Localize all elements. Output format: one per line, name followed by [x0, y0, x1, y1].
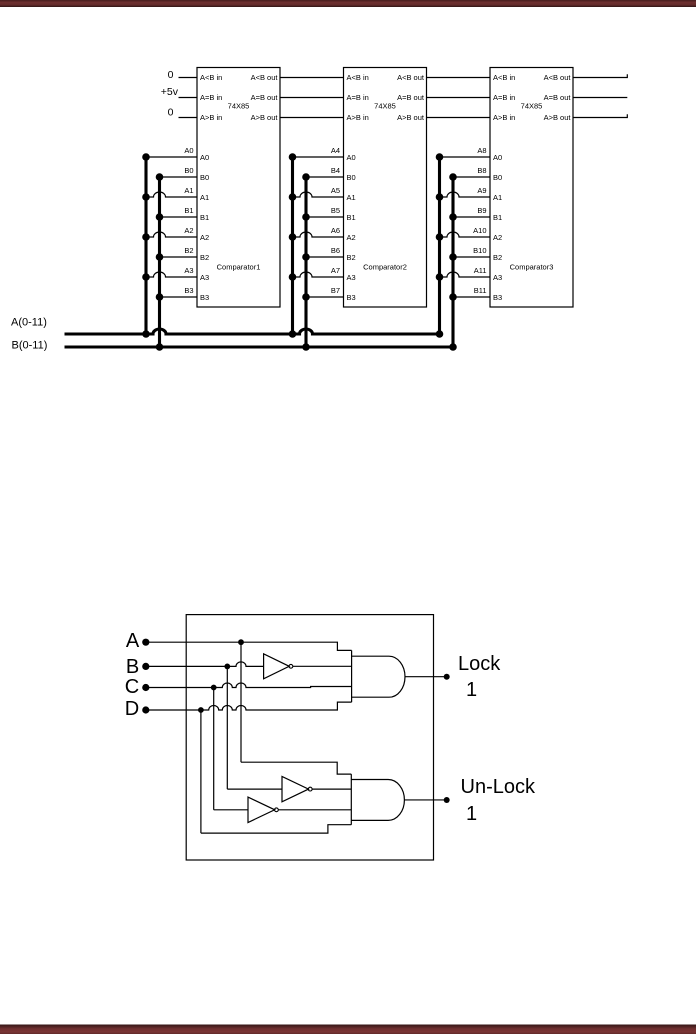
svg-text:B1: B1: [347, 213, 356, 222]
wire B to inverter N1: [146, 662, 264, 667]
wire C to AND1 input 3: [146, 683, 352, 687]
junction on A tap at A4: [289, 153, 297, 161]
wire net A4 to U2: [293, 156, 344, 158]
node D terminal: [142, 706, 149, 713]
svg-text:A3: A3: [184, 266, 193, 275]
svg-text:A=B in: A=B in: [200, 93, 222, 102]
wire net B5 to U2: [306, 216, 344, 218]
wire A=B out U3 to out: [573, 97, 627, 99]
wire A-bus vertical tap (chip 1): [144, 157, 147, 334]
svg-text:A8: A8: [477, 146, 486, 155]
wire 0 to U1 A>B in: [179, 117, 198, 119]
junction on B tap at B2: [156, 253, 164, 261]
bus B(0-11): [65, 345, 454, 348]
junction B branch: [224, 664, 230, 670]
wire G2 output to Un-Lock terminal: [405, 799, 447, 801]
svg-text:0: 0: [168, 106, 174, 118]
svg-text:B3: B3: [200, 293, 209, 302]
comparator U1 (74X85) body: [197, 68, 280, 308]
svg-text:A1: A1: [493, 193, 502, 202]
wire A=B out U2 to U3: [427, 97, 491, 99]
wire net A7 to U2: [293, 272, 344, 277]
svg-text:Un-Lock: Un-Lock: [461, 776, 536, 798]
junction A-bus / chip2 tap: [289, 330, 297, 338]
svg-text:B1: B1: [493, 213, 502, 222]
junction on B tap at B0: [156, 173, 164, 181]
wire B-bus vertical tap (chip 3): [451, 177, 454, 347]
svg-text:B2: B2: [184, 246, 193, 255]
wire N2 out to AND2 input 2: [312, 788, 351, 790]
svg-text:A<B out: A<B out: [544, 73, 572, 82]
junction A-bus / chip3 tap: [436, 330, 444, 338]
wire N1 out to AND1 input 2: [293, 665, 352, 667]
svg-text:C: C: [125, 676, 139, 698]
inverter N2 (B input of AND2): [282, 776, 312, 801]
wire net B6 to U2: [306, 256, 344, 258]
logic block outer box: [186, 615, 433, 860]
svg-text:A2: A2: [200, 233, 209, 242]
junction on A tap at A8: [436, 153, 444, 161]
junction D branch: [198, 707, 204, 713]
svg-text:1: 1: [466, 679, 477, 701]
svg-text:0: 0: [168, 69, 174, 81]
node C terminal: [142, 684, 149, 691]
wire A=B out U1 to U2: [280, 97, 344, 99]
svg-text:A0: A0: [347, 153, 356, 162]
wire A<B out U2 to U3: [427, 77, 491, 79]
junction C branch: [211, 685, 217, 691]
node Lock terminal: [444, 674, 450, 680]
node Un-Lock terminal: [444, 797, 450, 803]
svg-text:A2: A2: [184, 226, 193, 235]
svg-text:1: 1: [466, 803, 477, 825]
wire net B8 to U3: [453, 176, 490, 178]
svg-text:A9: A9: [477, 186, 486, 195]
wire net B0 to U1: [160, 176, 198, 178]
junction on B tap at B6: [302, 253, 310, 261]
wire 0 to U1 A<B in: [179, 77, 198, 79]
svg-text:A6: A6: [331, 226, 340, 235]
wire B-bus vertical tap (chip 1): [158, 177, 161, 347]
svg-text:A>B out: A>B out: [251, 113, 279, 122]
svg-text:A>B in: A>B in: [347, 113, 369, 122]
svg-text:A>B in: A>B in: [200, 113, 222, 122]
junction on B tap at B10: [449, 253, 457, 261]
svg-text:A0: A0: [184, 146, 193, 155]
wire D branch to AND2 bottom step: [201, 825, 351, 833]
inverter N1 (B input of AND1): [264, 654, 293, 679]
junction B-bus / chip1 tap: [156, 343, 164, 351]
svg-text:74X85: 74X85: [374, 102, 396, 111]
svg-text:A4: A4: [331, 146, 340, 155]
bottom banner bar: [0, 1025, 696, 1034]
svg-text:Comparator1: Comparator1: [217, 263, 261, 272]
junction on B tap at B4: [302, 173, 310, 181]
svg-text:Lock: Lock: [458, 653, 501, 675]
wire net A0 to U1: [146, 156, 197, 158]
wire net A10 to U3: [440, 232, 491, 237]
svg-text:A=B in: A=B in: [493, 93, 515, 102]
svg-text:A<B out: A<B out: [397, 73, 425, 82]
svg-text:B0: B0: [493, 173, 502, 182]
svg-text:B5: B5: [331, 206, 340, 215]
svg-text:A<B in: A<B in: [347, 73, 369, 82]
wire C vertical branch: [213, 688, 215, 810]
junction on B tap at B3: [156, 293, 164, 301]
node A terminal: [142, 639, 149, 646]
wire N3 out to AND2 input 3: [278, 809, 351, 811]
wire D vertical branch: [200, 710, 202, 833]
wire net A2 to U1: [146, 232, 197, 237]
svg-text:A3: A3: [347, 273, 356, 282]
svg-text:A<B in: A<B in: [200, 73, 222, 82]
wire A<B out U3 to out: [573, 74, 627, 77]
svg-text:A<B out: A<B out: [251, 73, 279, 82]
wire A-bus vertical tap (chip 3): [438, 157, 441, 334]
svg-text:A10: A10: [473, 226, 486, 235]
wire A>B out U1 to U2: [280, 117, 344, 119]
svg-text:B(0-11): B(0-11): [12, 340, 48, 352]
svg-text:+5v: +5v: [161, 86, 179, 98]
svg-text:D: D: [125, 698, 139, 720]
svg-text:A1: A1: [184, 186, 193, 195]
wire B vertical branch: [226, 666, 228, 789]
wire net B1 to U1: [160, 216, 198, 218]
junction on B tap at B7: [302, 293, 310, 301]
svg-text:A1: A1: [200, 193, 209, 202]
wire net A5 to U2: [293, 192, 344, 197]
AND gate G1 (Lock): [352, 650, 405, 702]
wire B-bus vertical tap (chip 2): [304, 177, 307, 347]
wire net A8 to U3: [440, 156, 491, 158]
wire G1 output to Lock terminal: [405, 676, 447, 678]
svg-text:B9: B9: [477, 206, 486, 215]
svg-text:B6: B6: [331, 246, 340, 255]
junction on B tap at B5: [302, 213, 310, 221]
junction on A tap at A5: [289, 193, 297, 201]
wire C branch to inverter N3: [214, 809, 248, 811]
wire +5v to U1 A=B in: [179, 97, 198, 99]
wire net B11 to U3: [453, 296, 490, 298]
wire A>B out U3 to out: [573, 114, 627, 117]
junction on A tap at A9: [436, 193, 444, 201]
junction on A tap at A3: [142, 273, 150, 281]
wire A>B out U2 to U3: [427, 117, 491, 119]
wire A to AND1 top step: [146, 642, 352, 650]
svg-text:B10: B10: [473, 246, 486, 255]
junction B-bus / chip3 tap: [449, 343, 457, 351]
inverter N3 (C input of AND2): [248, 797, 278, 822]
wire net B7 to U2: [306, 296, 344, 298]
junction on B tap at B9: [449, 213, 457, 221]
svg-text:A>B out: A>B out: [544, 113, 572, 122]
wire B branch to inverter N2: [227, 788, 282, 790]
svg-text:B3: B3: [347, 293, 356, 302]
svg-text:A5: A5: [331, 186, 340, 195]
svg-text:A(0-11): A(0-11): [11, 317, 47, 329]
svg-text:B1: B1: [184, 206, 193, 215]
svg-text:A2: A2: [347, 233, 356, 242]
svg-text:B11: B11: [474, 286, 487, 295]
svg-text:B3: B3: [184, 286, 193, 295]
junction B-bus / chip2 tap: [302, 343, 310, 351]
wire net B9 to U3: [453, 216, 490, 218]
wire net B10 to U3: [453, 256, 490, 258]
svg-text:B: B: [126, 656, 139, 678]
junction on B tap at B8: [449, 173, 457, 181]
wire A vertical branch: [240, 642, 242, 762]
svg-text:A=B out: A=B out: [544, 93, 572, 102]
svg-text:A11: A11: [474, 266, 487, 275]
junction A branch: [238, 639, 244, 645]
top banner bar: [0, 0, 696, 7]
svg-text:B0: B0: [184, 166, 193, 175]
junction on B tap at B11: [449, 293, 457, 301]
junction on A tap at A10: [436, 233, 444, 241]
junction on A tap at A11: [436, 273, 444, 281]
svg-text:A<B in: A<B in: [493, 73, 515, 82]
svg-text:A=B out: A=B out: [251, 93, 279, 102]
svg-text:A=B in: A=B in: [347, 93, 369, 102]
wire net A3 to U1: [146, 272, 197, 277]
junction on A tap at A6: [289, 233, 297, 241]
wire net A1 to U1: [146, 192, 197, 197]
svg-text:B8: B8: [477, 166, 486, 175]
svg-text:Comparator3: Comparator3: [510, 263, 554, 272]
svg-text:B0: B0: [200, 173, 209, 182]
wire A<B out U1 to U2: [280, 77, 344, 79]
svg-text:A0: A0: [493, 153, 502, 162]
junction on A tap at A7: [289, 273, 297, 281]
AND gate G2 (Un-Lock): [351, 774, 404, 825]
svg-text:B3: B3: [493, 293, 502, 302]
svg-text:Comparator2: Comparator2: [363, 263, 407, 272]
svg-text:A: A: [126, 630, 140, 652]
wire net A6 to U2: [293, 232, 344, 237]
node B terminal: [142, 663, 149, 670]
wire net A11 to U3: [440, 272, 491, 277]
svg-text:A3: A3: [493, 273, 502, 282]
junction A-bus / chip1 tap: [142, 330, 150, 338]
svg-text:A>B in: A>B in: [493, 113, 515, 122]
comparator U3 (74X85) body: [490, 68, 573, 308]
wire D to AND1 bottom step: [146, 702, 352, 710]
svg-text:74X85: 74X85: [228, 102, 250, 111]
svg-text:B4: B4: [331, 166, 340, 175]
svg-text:A7: A7: [331, 266, 340, 275]
wire net B2 to U1: [160, 256, 198, 258]
wire A branch to AND2 top step: [241, 762, 351, 774]
wire net B4 to U2: [306, 176, 344, 178]
svg-text:B7: B7: [331, 286, 340, 295]
junction on B tap at B1: [156, 213, 164, 221]
svg-text:B2: B2: [493, 253, 502, 262]
svg-text:A=B out: A=B out: [397, 93, 425, 102]
svg-text:A3: A3: [200, 273, 209, 282]
svg-text:A1: A1: [347, 193, 356, 202]
svg-text:B0: B0: [347, 173, 356, 182]
svg-text:B2: B2: [200, 253, 209, 262]
wire net A9 to U3: [440, 192, 491, 197]
wire net B3 to U1: [160, 296, 198, 298]
svg-text:74X85: 74X85: [521, 102, 543, 111]
junction on A tap at A1: [142, 193, 150, 201]
junction on A tap at A0: [142, 153, 150, 161]
wire A-bus vertical tap (chip 2): [291, 157, 294, 334]
svg-text:B1: B1: [200, 213, 209, 222]
bus A(0-11): [65, 329, 440, 334]
svg-text:A2: A2: [493, 233, 502, 242]
junction on A tap at A2: [142, 233, 150, 241]
comparator U2 (74X85) body: [344, 68, 427, 308]
svg-text:A0: A0: [200, 153, 209, 162]
svg-text:B2: B2: [347, 253, 356, 262]
svg-text:A>B out: A>B out: [397, 113, 425, 122]
